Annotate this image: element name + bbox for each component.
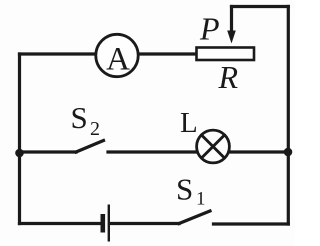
svg-text:S: S xyxy=(71,100,88,135)
svg-text:2: 2 xyxy=(90,118,100,140)
svg-text:P: P xyxy=(199,10,220,46)
svg-text:L: L xyxy=(180,107,198,139)
svg-text:R: R xyxy=(218,59,239,95)
svg-text:A: A xyxy=(106,42,130,78)
svg-text:S: S xyxy=(176,172,193,207)
svg-text:1: 1 xyxy=(196,189,206,210)
